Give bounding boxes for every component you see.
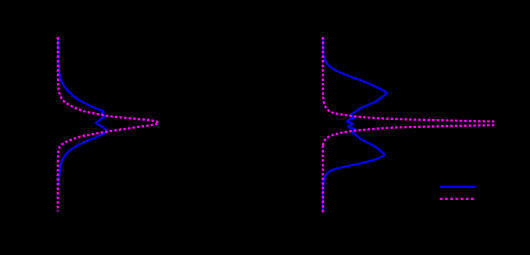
legend magenta dashed sample line bbox=[440, 198, 475, 200]
right plot blue solid curve bbox=[323, 37, 387, 211]
right plot magenta dashed curve (clipped at axes right edge) bbox=[323, 37, 508, 213]
legend blue solid sample line bbox=[440, 186, 476, 188]
left plot magenta dashed curve bbox=[58, 37, 159, 212]
left plot blue solid curve bbox=[58, 37, 107, 185]
